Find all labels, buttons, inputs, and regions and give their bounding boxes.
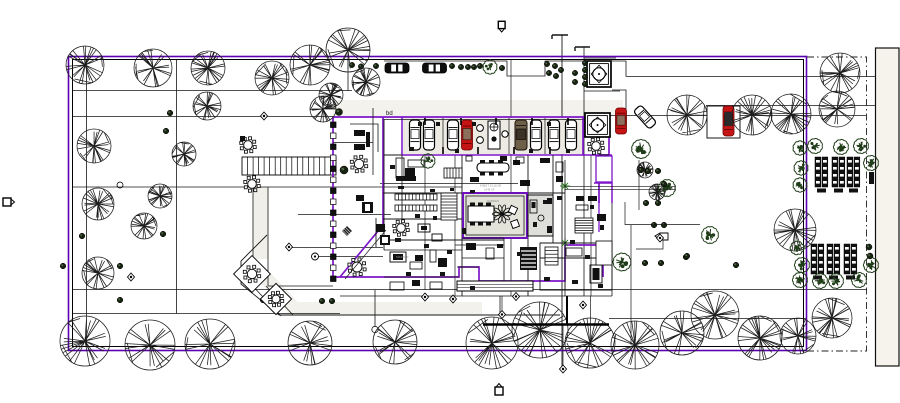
tree 33	[771, 94, 811, 134]
marker T x562	[552, 35, 568, 39]
tree 23	[512, 302, 568, 358]
gate bar	[566, 296, 568, 325]
tree 22	[466, 317, 518, 369]
interior walls extra	[384, 155, 612, 296]
green bush u3	[807, 138, 822, 153]
boundary purple rect	[69, 57, 807, 351]
diamond patio 2	[260, 283, 291, 314]
neighbour building block	[876, 48, 900, 366]
tree 31	[667, 95, 707, 135]
car dark horizontal 2	[423, 63, 447, 73]
annex furniture	[354, 130, 365, 136]
bush dot 4	[60, 263, 66, 269]
small tree b	[649, 184, 665, 200]
patio table 6	[350, 155, 367, 172]
site line y105	[706, 105, 875, 107]
car red bay	[723, 106, 734, 136]
site line y115 driveway	[609, 115, 866, 117]
right wing purple x599	[598, 201, 600, 232]
site line x584	[583, 47, 585, 296]
green bush v5	[863, 257, 878, 272]
marker T x584	[575, 47, 590, 51]
svg-text:MASTER: MASTER	[396, 255, 409, 259]
terrace inner line y296	[340, 295, 612, 297]
stem x631	[630, 225, 632, 345]
flag 453	[450, 295, 457, 303]
left edge markers	[3, 198, 15, 206]
tree 2	[134, 49, 172, 87]
court circle marker	[312, 253, 319, 260]
bush t18	[582, 74, 587, 79]
lawn double line y186	[565, 185, 675, 191]
tree 28	[738, 316, 782, 360]
loungers top 2	[832, 157, 845, 193]
flag 4	[128, 273, 135, 281]
tree 15	[131, 213, 157, 239]
plant hall	[421, 154, 435, 168]
green bush u5	[853, 138, 868, 153]
bush dot 12	[638, 167, 644, 173]
bush t15	[572, 79, 577, 84]
stem x502	[501, 296, 503, 311]
green bush drive	[632, 140, 651, 159]
purple frame unit2	[583, 117, 612, 155]
seats lower	[390, 252, 406, 262]
car red driveway	[616, 108, 627, 134]
bush dot 13	[645, 168, 651, 174]
interior sprinkles	[390, 122, 604, 290]
courtyard table	[468, 203, 494, 226]
garage purple box	[402, 117, 583, 155]
bush dot 16	[655, 200, 661, 206]
pool plant unit 1	[587, 61, 611, 87]
site line x176	[176, 60, 178, 314]
desk 1	[418, 224, 430, 232]
car white 1	[410, 120, 421, 150]
lap pool	[457, 281, 533, 291]
terrace diagonal edges	[241, 235, 279, 315]
bush t13	[553, 73, 558, 78]
bush t1	[358, 64, 363, 69]
building outline purple	[333, 116, 609, 281]
green bush lawn2	[659, 180, 676, 197]
small rect hall	[466, 156, 472, 161]
tree 19	[185, 319, 235, 369]
tree 3	[191, 51, 225, 85]
stair block bottom-right	[520, 247, 537, 270]
terrace edge y315	[279, 314, 560, 316]
boundary dash-dot right	[807, 57, 867, 351]
tree 11	[77, 129, 111, 163]
gray room furniture	[530, 200, 537, 213]
site line y76	[626, 76, 875, 78]
right wing room B	[596, 241, 612, 265]
sofa hall	[405, 168, 415, 176]
right wing dark blob	[597, 214, 606, 221]
loungers top 1	[815, 157, 828, 193]
bench 2	[395, 205, 437, 211]
site line x348	[347, 60, 349, 91]
small circle marker	[117, 182, 123, 188]
gray room	[528, 195, 553, 236]
bush dot 8	[260, 297, 266, 303]
desk 2	[432, 234, 442, 241]
car dark garage	[515, 120, 527, 150]
green bush v0	[794, 257, 809, 272]
walkway bottom band	[287, 302, 482, 315]
south retaining wall	[483, 323, 609, 325]
tree 18	[125, 320, 175, 370]
stair core	[441, 193, 457, 220]
bush dot 9	[268, 299, 274, 305]
site line y290	[72, 289, 867, 291]
car white 5	[549, 120, 560, 150]
bush dot 11	[329, 298, 335, 304]
car white 6	[566, 120, 577, 150]
hall walls	[383, 119, 609, 296]
site line y116	[72, 116, 333, 118]
site line y90	[72, 90, 352, 92]
site line x562	[561, 35, 563, 368]
bush dot 2	[163, 128, 169, 134]
bed bottom-right	[545, 247, 558, 265]
tree 20	[288, 321, 332, 365]
bush dot 17	[651, 222, 657, 228]
bush t2	[373, 63, 378, 68]
garage floor	[403, 118, 582, 154]
bush t14	[572, 70, 577, 75]
svg-text:GARDEN: GARDEN	[487, 199, 499, 203]
flag top	[498, 21, 505, 32]
pergola trellis strip	[242, 157, 336, 175]
tree 36	[774, 209, 816, 251]
bush t7	[477, 63, 482, 68]
bush dot 14	[655, 168, 661, 174]
site line x591	[590, 155, 592, 296]
flag 1	[580, 301, 587, 309]
courtyard	[463, 193, 527, 238]
car red garage	[462, 120, 473, 150]
terrace paving fill	[253, 187, 268, 259]
colonnade columns	[331, 122, 337, 282]
green bush v2	[812, 273, 827, 288]
hall cabinet	[444, 168, 462, 178]
courtyard fan palm	[493, 205, 512, 224]
tree 29	[780, 318, 816, 354]
flag 516	[513, 293, 520, 301]
tree 5	[290, 45, 330, 85]
bush dot 6	[160, 231, 166, 237]
green bush u2	[793, 178, 807, 192]
tree 14	[148, 184, 172, 208]
car white 4	[531, 120, 542, 150]
right wing furniture	[576, 196, 584, 201]
car white 3	[448, 120, 459, 150]
green cross 1	[560, 181, 570, 191]
tree 26	[660, 311, 704, 355]
bracket small	[240, 136, 245, 141]
bush t0	[349, 62, 354, 67]
flag 2	[499, 311, 506, 319]
unit1 surround lines	[584, 58, 626, 113]
bush t10	[552, 63, 557, 68]
bench 1	[395, 194, 437, 200]
lawn line x639	[638, 160, 640, 210]
house marker bottom	[495, 384, 503, 396]
garage top black line	[384, 119, 609, 121]
bush dot 15	[643, 200, 649, 206]
arrow marker lawn	[636, 233, 668, 249]
court flag marker	[286, 243, 293, 251]
loungers bottom 2	[827, 244, 840, 280]
patio table 2	[268, 291, 283, 306]
bush dot 20	[658, 260, 664, 266]
green bush v3	[828, 273, 843, 288]
loungers bottom 1	[811, 244, 824, 280]
tree 32	[732, 95, 772, 135]
green bush v6	[790, 241, 804, 255]
diamond patio 1	[234, 256, 271, 293]
room furniture extra 1	[466, 243, 476, 250]
site line x511	[510, 60, 512, 296]
tree 21	[373, 320, 417, 364]
bush dot 7	[117, 297, 123, 303]
boundary black rect	[73, 60, 804, 347]
tree 4	[255, 61, 289, 95]
courtyard lounges	[508, 205, 517, 214]
table near unit2	[588, 138, 604, 154]
stairs right wing	[575, 218, 593, 233]
lawn line y224	[625, 202, 700, 225]
site line y184	[380, 183, 518, 185]
tree 25	[611, 321, 659, 369]
tree 9	[310, 96, 336, 122]
tree 24	[565, 318, 615, 368]
small tree c	[613, 253, 631, 271]
bush dot 19	[642, 260, 648, 266]
purple step right wing	[594, 183, 612, 203]
dots right wall	[866, 244, 872, 250]
bush t5	[465, 64, 470, 69]
tree 27	[691, 291, 739, 339]
green bush u4	[833, 139, 848, 154]
green bush lawn	[702, 227, 719, 244]
pool plant unit 2	[585, 113, 610, 137]
bush t8	[499, 65, 504, 70]
tree 7	[352, 68, 380, 96]
parking bay	[707, 106, 740, 138]
triangle room furniture	[356, 195, 390, 247]
bush t6	[471, 64, 476, 69]
green bush top	[483, 60, 497, 74]
bush dot 5	[117, 263, 123, 269]
bush at building corner	[336, 109, 343, 116]
room furniture extra 2	[470, 177, 479, 182]
bush dot 23	[733, 262, 739, 268]
side table bottom-right	[566, 248, 582, 256]
tree 1	[66, 46, 104, 84]
bush t19	[582, 81, 587, 86]
car diagonal	[633, 105, 656, 130]
small tree a	[637, 162, 653, 178]
site line x425	[424, 117, 426, 290]
bush t16	[582, 60, 587, 65]
green bush v4	[851, 272, 866, 287]
cabinet bottom-right	[590, 265, 602, 283]
bush dot 18	[661, 222, 667, 228]
room furniture extra 3	[556, 162, 563, 172]
green cross 2	[560, 238, 570, 248]
bush t9	[544, 61, 549, 66]
tree 34	[820, 53, 860, 93]
bush t11	[558, 67, 563, 72]
green bush u1	[794, 161, 808, 175]
kitchen counters	[396, 158, 404, 178]
site line y187	[72, 186, 462, 188]
right wing room A	[596, 156, 612, 182]
tree 35	[819, 91, 855, 127]
tree 17	[60, 316, 110, 366]
tree 12	[172, 142, 196, 166]
green bush v1	[792, 272, 807, 287]
loungers top 3	[847, 157, 860, 193]
bush dot 10	[319, 298, 325, 304]
flag 3	[657, 234, 664, 242]
walkway diagonal band	[256, 268, 292, 306]
green bush u0	[793, 141, 807, 155]
tree 16	[82, 257, 114, 289]
site line x86	[86, 60, 88, 347]
long dining table	[477, 160, 509, 176]
room furniture extra 4	[390, 282, 404, 290]
patio table 4	[240, 137, 256, 153]
round table room	[393, 220, 409, 236]
court lines with markers	[289, 215, 391, 257]
lawn line y318	[609, 318, 806, 320]
upper pavement fill	[333, 100, 623, 116]
tree 13	[82, 188, 114, 220]
bush dot 1	[167, 110, 173, 116]
site line y313	[72, 313, 340, 315]
pool lounge deck	[513, 160, 520, 165]
site line x455	[454, 155, 456, 296]
moto circles	[477, 125, 484, 132]
bush t12	[546, 70, 551, 75]
patio table 3	[348, 258, 366, 276]
car white 2	[424, 120, 435, 150]
svg-text:1648 SF: 1648 SF	[484, 188, 495, 192]
bush t17	[582, 67, 587, 72]
bottom-right rooms	[540, 243, 612, 290]
bush dot 22	[684, 253, 690, 259]
bay car roof	[725, 112, 733, 126]
bush dot 24	[661, 181, 667, 187]
utility box with fan	[488, 121, 500, 149]
survey pole x375	[374, 290, 376, 326]
survey pole x500	[499, 296, 501, 313]
bush dot 21	[683, 254, 689, 260]
dark lozenge	[342, 226, 352, 236]
dark rect right wall	[869, 172, 874, 184]
moto circle 2	[502, 131, 508, 137]
stem x590	[590, 296, 592, 343]
flag pole a	[560, 365, 567, 373]
patio table 1	[243, 265, 260, 282]
tree 10	[193, 92, 221, 120]
tree 6	[326, 28, 370, 72]
tree 8	[319, 83, 343, 107]
tree 30	[812, 298, 852, 338]
svg-text:bd: bd	[386, 111, 393, 117]
loungers bottom 3	[844, 244, 857, 280]
green bush u6	[863, 155, 878, 170]
diamond marker field	[261, 112, 268, 120]
garage stall dividers	[443, 118, 545, 154]
car dark horizontal 1	[385, 63, 409, 73]
wall ticks garage	[425, 118, 568, 154]
west court outline	[247, 187, 333, 316]
bush t4	[458, 64, 463, 69]
patio table 5	[244, 176, 260, 192]
ramp diagonal black	[345, 230, 386, 279]
bush t3	[449, 63, 454, 68]
bush dot 3	[79, 233, 85, 239]
building notch top	[384, 61, 626, 77]
flag 425	[422, 293, 429, 301]
plant pot terrace	[340, 166, 348, 174]
left annex room	[333, 108, 378, 175]
